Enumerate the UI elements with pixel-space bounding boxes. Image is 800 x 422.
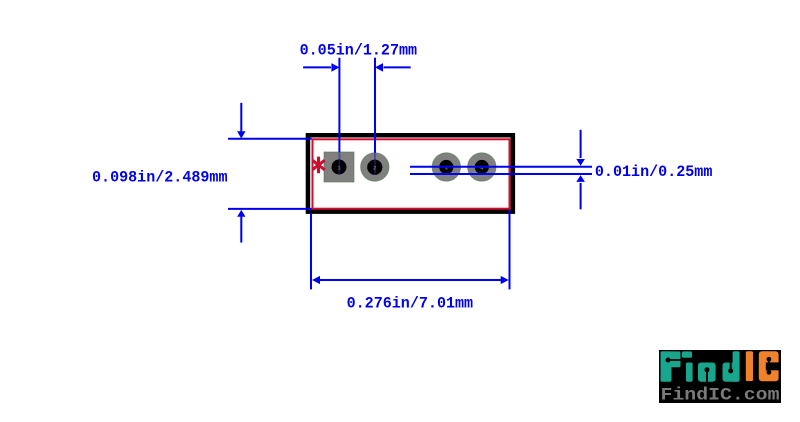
right dimension vertical line lower [580,183,582,209]
logo letter C [759,351,779,381]
left dimension vertical line lower [240,217,242,243]
arrowhead up-pointing right dim [576,175,585,182]
pad 1 (square, pin 1) [324,152,354,182]
logo F via dot and trace [668,359,681,361]
arrowhead left-pointing bottom dim [312,276,320,284]
svg-text:0.098in/2.489mm: 0.098in/2.489mm [92,168,228,186]
faint line continuation through holes 1 and 2 [338,160,340,175]
bottom dimension line [319,279,502,281]
arrowhead left-pointing [375,63,383,72]
dimension extension line, pad1 center vertical [338,58,340,153]
drill hole pad 1 [332,160,347,175]
logo letter i [682,351,693,381]
logo letter F [661,351,681,381]
logo letter d [723,351,740,381]
courtyard outline (black rectangle) [308,135,513,211]
dimension extension line, pad2 center vertical [374,58,376,153]
right dimension vertical line upper [580,130,582,158]
extension line bottom-right [509,210,511,289]
arrowhead up-pointing [237,210,245,217]
svg-text:0.01in/0.25mm: 0.01in/0.25mm [595,163,713,181]
svg-text:0.05in/1.27mm: 0.05in/1.27mm [300,42,418,60]
drill hole pad 3 [439,160,453,174]
extension line bottom-left [310,213,312,289]
dimension arrow line top-left [303,66,331,68]
drill hole pad 4 [475,160,489,174]
silkscreen outline (red rectangle) [313,139,510,208]
logo letter I [746,351,753,381]
dimension arrow line top-right [384,66,411,68]
silk line upper edge (horizontal through pads 3-4) [410,166,592,168]
pad 4 [468,153,496,181]
arrowhead right-pointing [331,63,339,72]
arrowhead right-pointing bottom dim [501,276,509,284]
arrowhead down-pointing [237,131,245,138]
silk line lower edge [410,173,592,175]
pad 3 [432,153,460,181]
svg-text:FindIC.com: FindIC.com [661,386,780,406]
left dimension vertical line upper [240,103,242,132]
logo n via dot and trace [706,370,708,382]
logo d via dot and trace [730,363,732,371]
FindIC logo background [659,350,781,403]
extension line left-top [228,138,312,140]
arrowhead down-pointing right dim [576,159,585,166]
extension line left-bottom [228,208,312,210]
logo C mouth notch [766,362,781,370]
pad 2 [361,153,389,181]
pin 1 marker asterisk [312,157,324,174]
logo C via dots and trace [768,359,770,372]
svg-text:0.276in/7.01mm: 0.276in/7.01mm [347,294,474,312]
svg-text:2: 2 [373,165,376,172]
logo letter n [698,363,716,382]
drill hole pad 2 [367,160,382,175]
